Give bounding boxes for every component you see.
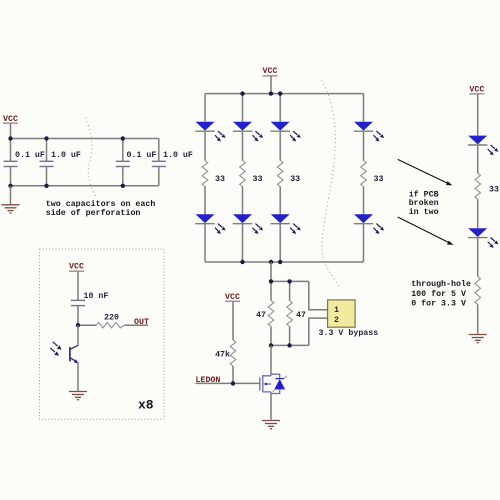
svg-text:1.0 uF: 1.0 uF [163,151,193,160]
svg-text:33: 33 [253,175,263,184]
3.3 V bypass jumper block [328,300,356,327]
capacitor 0.1 uF #3 [116,139,130,186]
wire to bypass pin 2 [309,318,328,345]
VCC power symbol (left caps) [3,115,18,139]
junction dots (cap rails) [8,136,125,188]
LED (bottom, column 2) [233,214,263,234]
wire LED array top rail [205,93,364,95]
svg-text:0.1 uF: 0.1 uF [127,151,157,160]
wire LED array bottom rail [205,261,364,263]
wire MOSFET drain [270,345,272,374]
VCC power symbol (47k pullup) [225,293,240,340]
svg-text:33: 33 [489,186,499,195]
resistor through-hole [475,277,481,305]
wire column 2 segments [242,94,244,262]
wire column 1 segments [204,94,206,262]
capacitor 0.1 uF #1 [4,139,18,186]
resistor 33 (right) [475,173,481,199]
svg-text:2: 2 [334,316,339,325]
junction dot (cap/res node) [76,323,80,327]
wire MOSFET source to ground [270,393,272,419]
junction dots (LED array rails) [240,91,282,264]
svg-text:0 for 3.3 V: 0 for 3.3 V [411,298,466,308]
wire resistor to LED [477,199,479,228]
svg-text:33: 33 [374,175,384,184]
wire column 4 segments [363,94,365,262]
svg-text:1: 1 [334,306,339,315]
svg-text:3.3 V bypass: 3.3 V bypass [319,328,379,338]
svg-text:broken: broken [409,198,439,208]
svg-text:two capacitors on each: two capacitors on each [46,199,156,209]
LED (top, column 1) [195,122,225,142]
svg-text:47: 47 [296,311,306,320]
svg-text:47k: 47k [215,350,230,360]
perforation dotted line (center) [322,81,339,287]
wire emitter to ground [77,363,79,391]
svg-text:VCC: VCC [263,67,278,76]
annotation arrow (lower) [398,217,454,245]
LED (top, column 2) [233,122,263,142]
svg-text:through-hole: through-hole [411,279,471,289]
capacitor 1.0 uF #2 [40,139,54,186]
wire top junction rail [271,280,309,282]
svg-text:side of perforation: side of perforation [46,208,141,218]
resistor 47k [230,340,236,383]
resistor 220 (horizontal) [97,322,125,328]
wire top rail (caps) [11,138,159,140]
svg-text:VCC: VCC [469,85,484,94]
resistor 33 (column 3) [277,161,283,187]
wire bottom junction rail [271,344,309,346]
svg-text:47: 47 [256,311,266,320]
ground (left caps) [2,186,20,213]
junction dots (47-ohm junctions) [269,279,292,347]
wire bottom rail (caps) [11,185,159,187]
svg-text:VCC: VCC [225,293,240,302]
perforation dotted line (left) [86,118,97,199]
svg-text:100 for 5 V: 100 for 5 V [411,289,466,299]
wire stem from LED array [270,262,272,281]
svg-text:x8: x8 [138,398,154,413]
resistor 47 (right) [287,281,293,345]
junction dot (LEDON/47k) [231,381,235,385]
capacitor 1.0 uF #4 [152,139,166,186]
LED (right bottom) [468,228,498,248]
wire OUT net [125,324,149,326]
wire node to resistor 220 [78,324,97,326]
ground (right column) [469,335,487,343]
wire LED to resistor [477,145,479,173]
ground (MOSFET source) [262,421,280,429]
VCC power symbol (sensor cell) [69,263,84,301]
svg-text:if PCB: if PCB [409,189,439,199]
svg-text:33: 33 [290,175,300,184]
resistor 33 (column 4) [361,161,367,187]
wire column 3 segments [279,94,281,262]
wire resistor to ground [477,305,479,334]
wire to bypass pin 1 [309,281,328,309]
VCC power symbol (right column) [469,85,484,135]
resistor 33 (column 2) [240,161,246,187]
LED (bottom, column 4) [354,214,384,234]
wire LEDON net [196,382,260,384]
LED (right top) [468,136,498,156]
LED (top, column 3) [271,122,301,142]
ground (sensor cell) [69,392,87,400]
LED (top, column 4) [354,122,384,142]
svg-text:10 nF: 10 nF [84,292,109,301]
svg-text:0.1 uF: 0.1 uF [15,151,45,160]
wire LED to through-hole resistor [477,238,479,277]
svg-text:220: 220 [104,314,119,323]
svg-text:OUT: OUT [134,318,149,327]
MOSFET Q (n-channel with body diode) [260,374,287,393]
svg-text:VCC: VCC [69,263,84,272]
resistor 33 (column 1) [202,161,208,187]
VCC power symbol (LED array) [263,67,278,93]
phototransistor Q (npn photo) [50,342,78,363]
svg-text:in two: in two [409,207,439,217]
capacitor 10 nF [71,300,85,325]
annotation arrow (upper) [398,159,453,185]
wire node to phototransistor collector [77,325,79,345]
svg-text:33: 33 [215,175,225,184]
LED (bottom, column 1) [195,214,225,234]
x8 cell dotted border [40,249,165,419]
LED (bottom, column 3) [271,214,301,234]
resistor 47 (left) [268,281,274,345]
svg-text:1.0 uF: 1.0 uF [51,151,81,160]
